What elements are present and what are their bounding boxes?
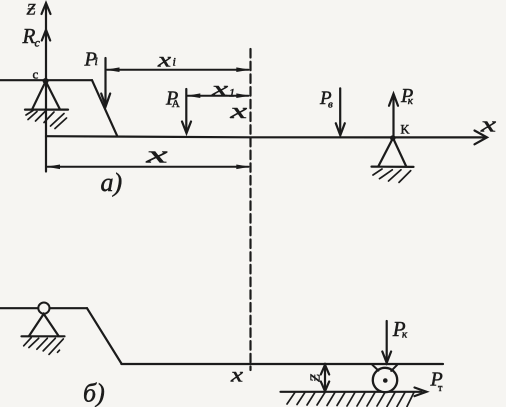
dashed section line x-x: [249, 49, 251, 370]
svg-text:i: i: [95, 54, 98, 68]
reaction Rc arrowhead: [42, 30, 50, 41]
svg-text:к: к: [402, 329, 408, 341]
label z (gap, rotated): [309, 374, 324, 382]
hinge point C dot: [43, 78, 49, 84]
roller support circle: [38, 303, 49, 314]
support C hatching: [26, 111, 67, 129]
svg-text:x: x: [157, 50, 172, 72]
svg-text:x: x: [210, 79, 228, 101]
label Pi: [84, 49, 98, 71]
label x (dimension, bottom of a): [145, 143, 169, 169]
label c (support point): [33, 67, 39, 82]
label a): [101, 168, 123, 197]
support C triangle: [32, 81, 60, 109]
svg-text:i: i: [173, 55, 176, 69]
svg-text:б): б): [83, 379, 105, 407]
svg-text:c: c: [35, 36, 41, 50]
wheel center dot: [383, 378, 388, 383]
wheel yoke left: [372, 365, 378, 371]
svg-text:K: K: [401, 123, 410, 137]
support K base line: [372, 166, 414, 168]
svg-text:c: c: [33, 67, 39, 82]
support K triangle: [379, 138, 407, 166]
force PK arrow (up): [389, 94, 398, 137]
roller support hatching: [24, 338, 64, 355]
(b) lower beam line: [121, 363, 443, 365]
Z axis arrowhead: [42, 3, 51, 14]
dimension line x (bottom of a): [46, 165, 250, 170]
gap dimension double arrow z: [321, 365, 329, 391]
svg-text:в: в: [328, 98, 333, 110]
wheel yoke right: [391, 365, 397, 371]
force PA arrow: [182, 89, 191, 133]
(b) beam diagonal step: [87, 308, 121, 363]
svg-text:A: A: [172, 98, 180, 110]
svg-text:x: x: [145, 143, 169, 169]
beam diagonal step (a): [92, 80, 117, 136]
label PT: [430, 369, 444, 395]
svg-text:т: т: [438, 383, 443, 394]
ground hatching: [287, 392, 414, 406]
wheel (rolling load K): [373, 368, 397, 392]
main beam line / x axis: [46, 136, 486, 137]
svg-text:R: R: [22, 24, 36, 48]
svg-text:x: x: [479, 112, 496, 137]
support C base line: [25, 108, 68, 110]
force Pi arrow: [101, 58, 110, 106]
svg-text:Ƶ: Ƶ: [27, 2, 37, 19]
svg-text:а): а): [101, 168, 123, 197]
roller support triangle: [29, 314, 59, 336]
label Rc: [22, 24, 41, 50]
svg-text:x: x: [230, 365, 243, 387]
label PK (b): [392, 317, 408, 341]
svg-text:к: к: [408, 95, 414, 107]
label x (at section, a): [229, 98, 248, 123]
label K (support point): [401, 123, 410, 137]
x axis arrowhead: [475, 131, 488, 145]
label Z (axis): [27, 2, 37, 19]
label x (axis, right): [479, 112, 496, 137]
svg-text:x: x: [229, 98, 248, 123]
svg-text:Ƶ: Ƶ: [309, 374, 324, 382]
support K apex dot: [390, 135, 396, 141]
label PA: [165, 88, 180, 111]
dimension line x1: [187, 93, 250, 98]
label PK (top): [400, 85, 414, 107]
upper beam line (left span through C): [0, 79, 92, 81]
force PB arrow: [336, 88, 345, 135]
force PK arrow (b): [382, 321, 391, 363]
ground line with PT arrow: [281, 388, 427, 397]
dimension line xi: [106, 67, 250, 72]
label xi: [157, 50, 176, 72]
Z axis line: [45, 4, 47, 172]
label x1: [210, 79, 235, 101]
label b): [83, 379, 105, 407]
label PB: [319, 88, 333, 110]
roller support base line: [22, 335, 65, 337]
(b) upper beam line: [0, 307, 87, 309]
support K hatching: [373, 169, 411, 182]
label x (section, b): [230, 365, 243, 387]
